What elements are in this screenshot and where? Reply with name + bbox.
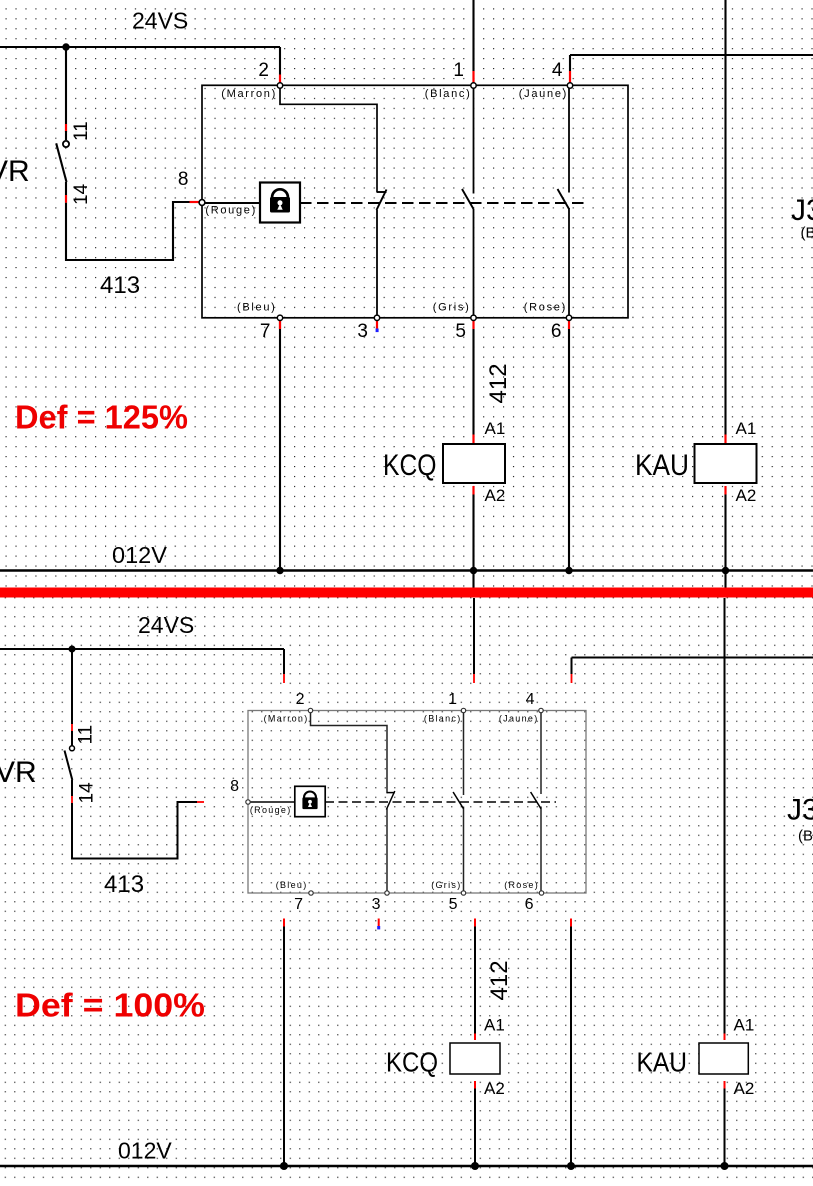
- svg-text:KAU: KAU: [635, 449, 689, 482]
- svg-text:A2: A2: [736, 486, 757, 505]
- svg-text:(Gris): (Gris): [433, 302, 471, 314]
- svg-text:(Jaune): (Jaune): [519, 88, 568, 100]
- svg-text:KCQ: KCQ: [386, 1047, 438, 1078]
- svg-text:A1: A1: [485, 419, 506, 438]
- svg-text:(Gris): (Gris): [431, 880, 461, 890]
- svg-text:24VS: 24VS: [132, 8, 188, 34]
- svg-text:11: 11: [76, 725, 97, 745]
- svg-text:(Marron): (Marron): [221, 88, 277, 100]
- svg-text:7: 7: [294, 896, 303, 913]
- svg-text:J3: J3: [791, 194, 813, 227]
- svg-text:6: 6: [551, 321, 562, 342]
- svg-text:8: 8: [178, 169, 189, 190]
- svg-text:(Rose): (Rose): [524, 302, 567, 314]
- svg-text:A1: A1: [484, 1016, 505, 1035]
- svg-text:3: 3: [372, 896, 381, 913]
- svg-text:6: 6: [525, 896, 534, 913]
- svg-text:(Rouge): (Rouge): [250, 805, 292, 815]
- svg-text:(B: (B: [801, 225, 813, 242]
- svg-text:1: 1: [448, 691, 457, 708]
- svg-text:14: 14: [77, 782, 98, 804]
- svg-text:A1: A1: [736, 419, 757, 438]
- svg-text:J3: J3: [787, 794, 813, 827]
- svg-text:(Jaune): (Jaune): [499, 714, 539, 724]
- svg-text:Def = 125%: Def = 125%: [15, 399, 188, 436]
- svg-text:VR: VR: [0, 756, 37, 789]
- svg-text:(Blanc): (Blanc): [424, 714, 462, 724]
- svg-text:4: 4: [552, 60, 563, 81]
- svg-text:1: 1: [453, 60, 464, 81]
- svg-text:VR: VR: [0, 155, 30, 188]
- svg-text:4: 4: [526, 691, 535, 708]
- svg-text:412: 412: [486, 960, 513, 1000]
- svg-text:5: 5: [455, 321, 466, 342]
- svg-text:413: 413: [100, 272, 140, 299]
- svg-text:7: 7: [260, 321, 271, 342]
- svg-text:A2: A2: [734, 1079, 755, 1098]
- svg-text:012V: 012V: [118, 1138, 172, 1164]
- svg-text:A2: A2: [485, 486, 506, 505]
- svg-text:2: 2: [258, 60, 269, 81]
- svg-text:11: 11: [71, 121, 92, 141]
- svg-text:KAU: KAU: [637, 1047, 688, 1078]
- svg-text:(Rose): (Rose): [504, 880, 539, 890]
- svg-text:(Bleu): (Bleu): [276, 880, 308, 890]
- svg-text:(Marron): (Marron): [264, 714, 309, 724]
- svg-text:(Blanc): (Blanc): [425, 88, 472, 100]
- svg-text:(Rouge): (Rouge): [205, 205, 257, 217]
- svg-text:412: 412: [485, 363, 512, 403]
- svg-text:8: 8: [230, 778, 239, 795]
- svg-text:(B: (B: [798, 828, 813, 845]
- svg-text:413: 413: [104, 871, 144, 898]
- svg-text:Def = 100%: Def = 100%: [15, 987, 205, 1024]
- svg-text:(Bleu): (Bleu): [237, 302, 277, 314]
- svg-text:A2: A2: [484, 1079, 505, 1098]
- svg-text:14: 14: [71, 183, 92, 205]
- svg-text:24VS: 24VS: [138, 612, 194, 638]
- svg-text:KCQ: KCQ: [383, 449, 437, 482]
- svg-text:3: 3: [357, 321, 368, 342]
- svg-text:A1: A1: [734, 1016, 755, 1035]
- svg-text:5: 5: [449, 896, 458, 913]
- svg-text:2: 2: [296, 691, 305, 708]
- svg-text:012V: 012V: [112, 542, 167, 568]
